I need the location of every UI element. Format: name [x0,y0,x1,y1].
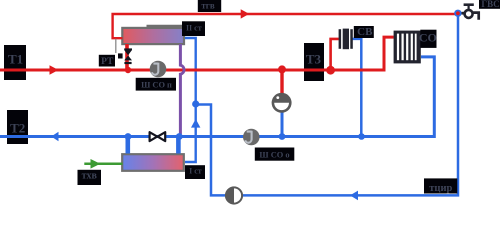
capillary line of RT regulator [115,39,117,53]
label II st [182,21,205,36]
label RT [99,55,115,67]
label thv [78,170,102,185]
label Sh SO p [136,78,176,91]
label CO [419,30,437,48]
svg-text:СО: СО [419,30,437,44]
junction dot on supply at regulator [278,65,286,73]
heat exchanger U2 (stage II) [122,28,184,44]
arrow right on DHW supply [241,9,250,18]
arrow up on DHW riser [191,119,200,128]
wire stub regulator to return main [281,112,284,137]
label SV [354,26,374,38]
wire blue return main T2 with CO return drop [0,57,434,137]
svg-text:тгв: тгв [201,0,215,10]
wire branch to SV heater [331,39,339,70]
label GVS [479,0,500,9]
wire stub main to U1 right [176,137,181,154]
junction dot return main at regulator stub [279,133,286,140]
arrow left on return main [51,132,58,141]
svg-text:тхв: тхв [82,171,98,182]
wire purple U2 outlet to return node with hop over red main [180,44,184,134]
wire DHW riser stage I to stage II [185,38,196,162]
circulation pump on tcir line [225,186,243,204]
junction node T3 dot [326,66,335,75]
junction dot on supply at RT valve [125,67,131,73]
svg-text:ГВС: ГВС [481,0,499,9]
wire SV return drop [353,39,362,137]
SV ventilation heater icon [339,29,353,50]
svg-text:II ст: II ст [186,24,202,33]
svg-text:I ст: I ст [189,167,202,176]
label I st [185,165,205,179]
arrow left on circulation line [350,191,358,201]
wire circulation line (tcir) [196,13,458,195]
wire red supply main T1 to CO [0,37,394,70]
junction dot riser to circulation branch [192,100,199,107]
svg-text:Ш СО п: Ш СО п [141,81,172,90]
svg-text:Т3: Т3 [306,52,322,67]
label tcir [424,178,457,193]
svg-text:Т2: Т2 [10,121,25,136]
flow meter ShSOo on return main [243,129,260,146]
node T2 label box [7,110,28,144]
pressure regulator on supply-return jumper [272,93,292,113]
flow meter ShSOp on supply main [150,61,167,78]
junction dot return main at U1 right stub [176,133,183,140]
arrow on cold water inlet [91,159,101,169]
wire cold water inlet (green) [84,163,122,166]
CO radiator icon [394,31,421,64]
wire stub main through RT valve to U2 [125,44,129,70]
heat exchanger U1 (stage I) [122,154,184,171]
control valve RT body [124,48,132,64]
junction dot return main at U1 left stub [125,133,132,140]
svg-text:Т1: Т1 [8,51,23,66]
junction dot return main at SV drop [358,133,365,140]
svg-text:тцир: тцир [429,183,452,194]
node T3 label box [304,43,324,81]
junction dot DHW supply to tap and circulation [454,10,461,17]
wire DHW supply line (tgv) [113,14,457,38]
svg-text:Ш СО о: Ш СО о [259,151,289,160]
RT regulator actuator [118,53,123,58]
wire stub main to U1 left [126,137,131,154]
arrow right on supply main [50,65,59,74]
water tap GVS [462,5,479,20]
bypass valve on return main [150,132,166,141]
node T1 label box [4,45,26,80]
wire stub supply main to regulator [280,70,283,94]
svg-text:СВ: СВ [357,26,373,38]
heat exchanger stage II back plate tab [147,25,187,27]
label Sh SO o [255,148,294,161]
svg-text:РТ: РТ [101,57,114,67]
label tgv [198,0,221,12]
